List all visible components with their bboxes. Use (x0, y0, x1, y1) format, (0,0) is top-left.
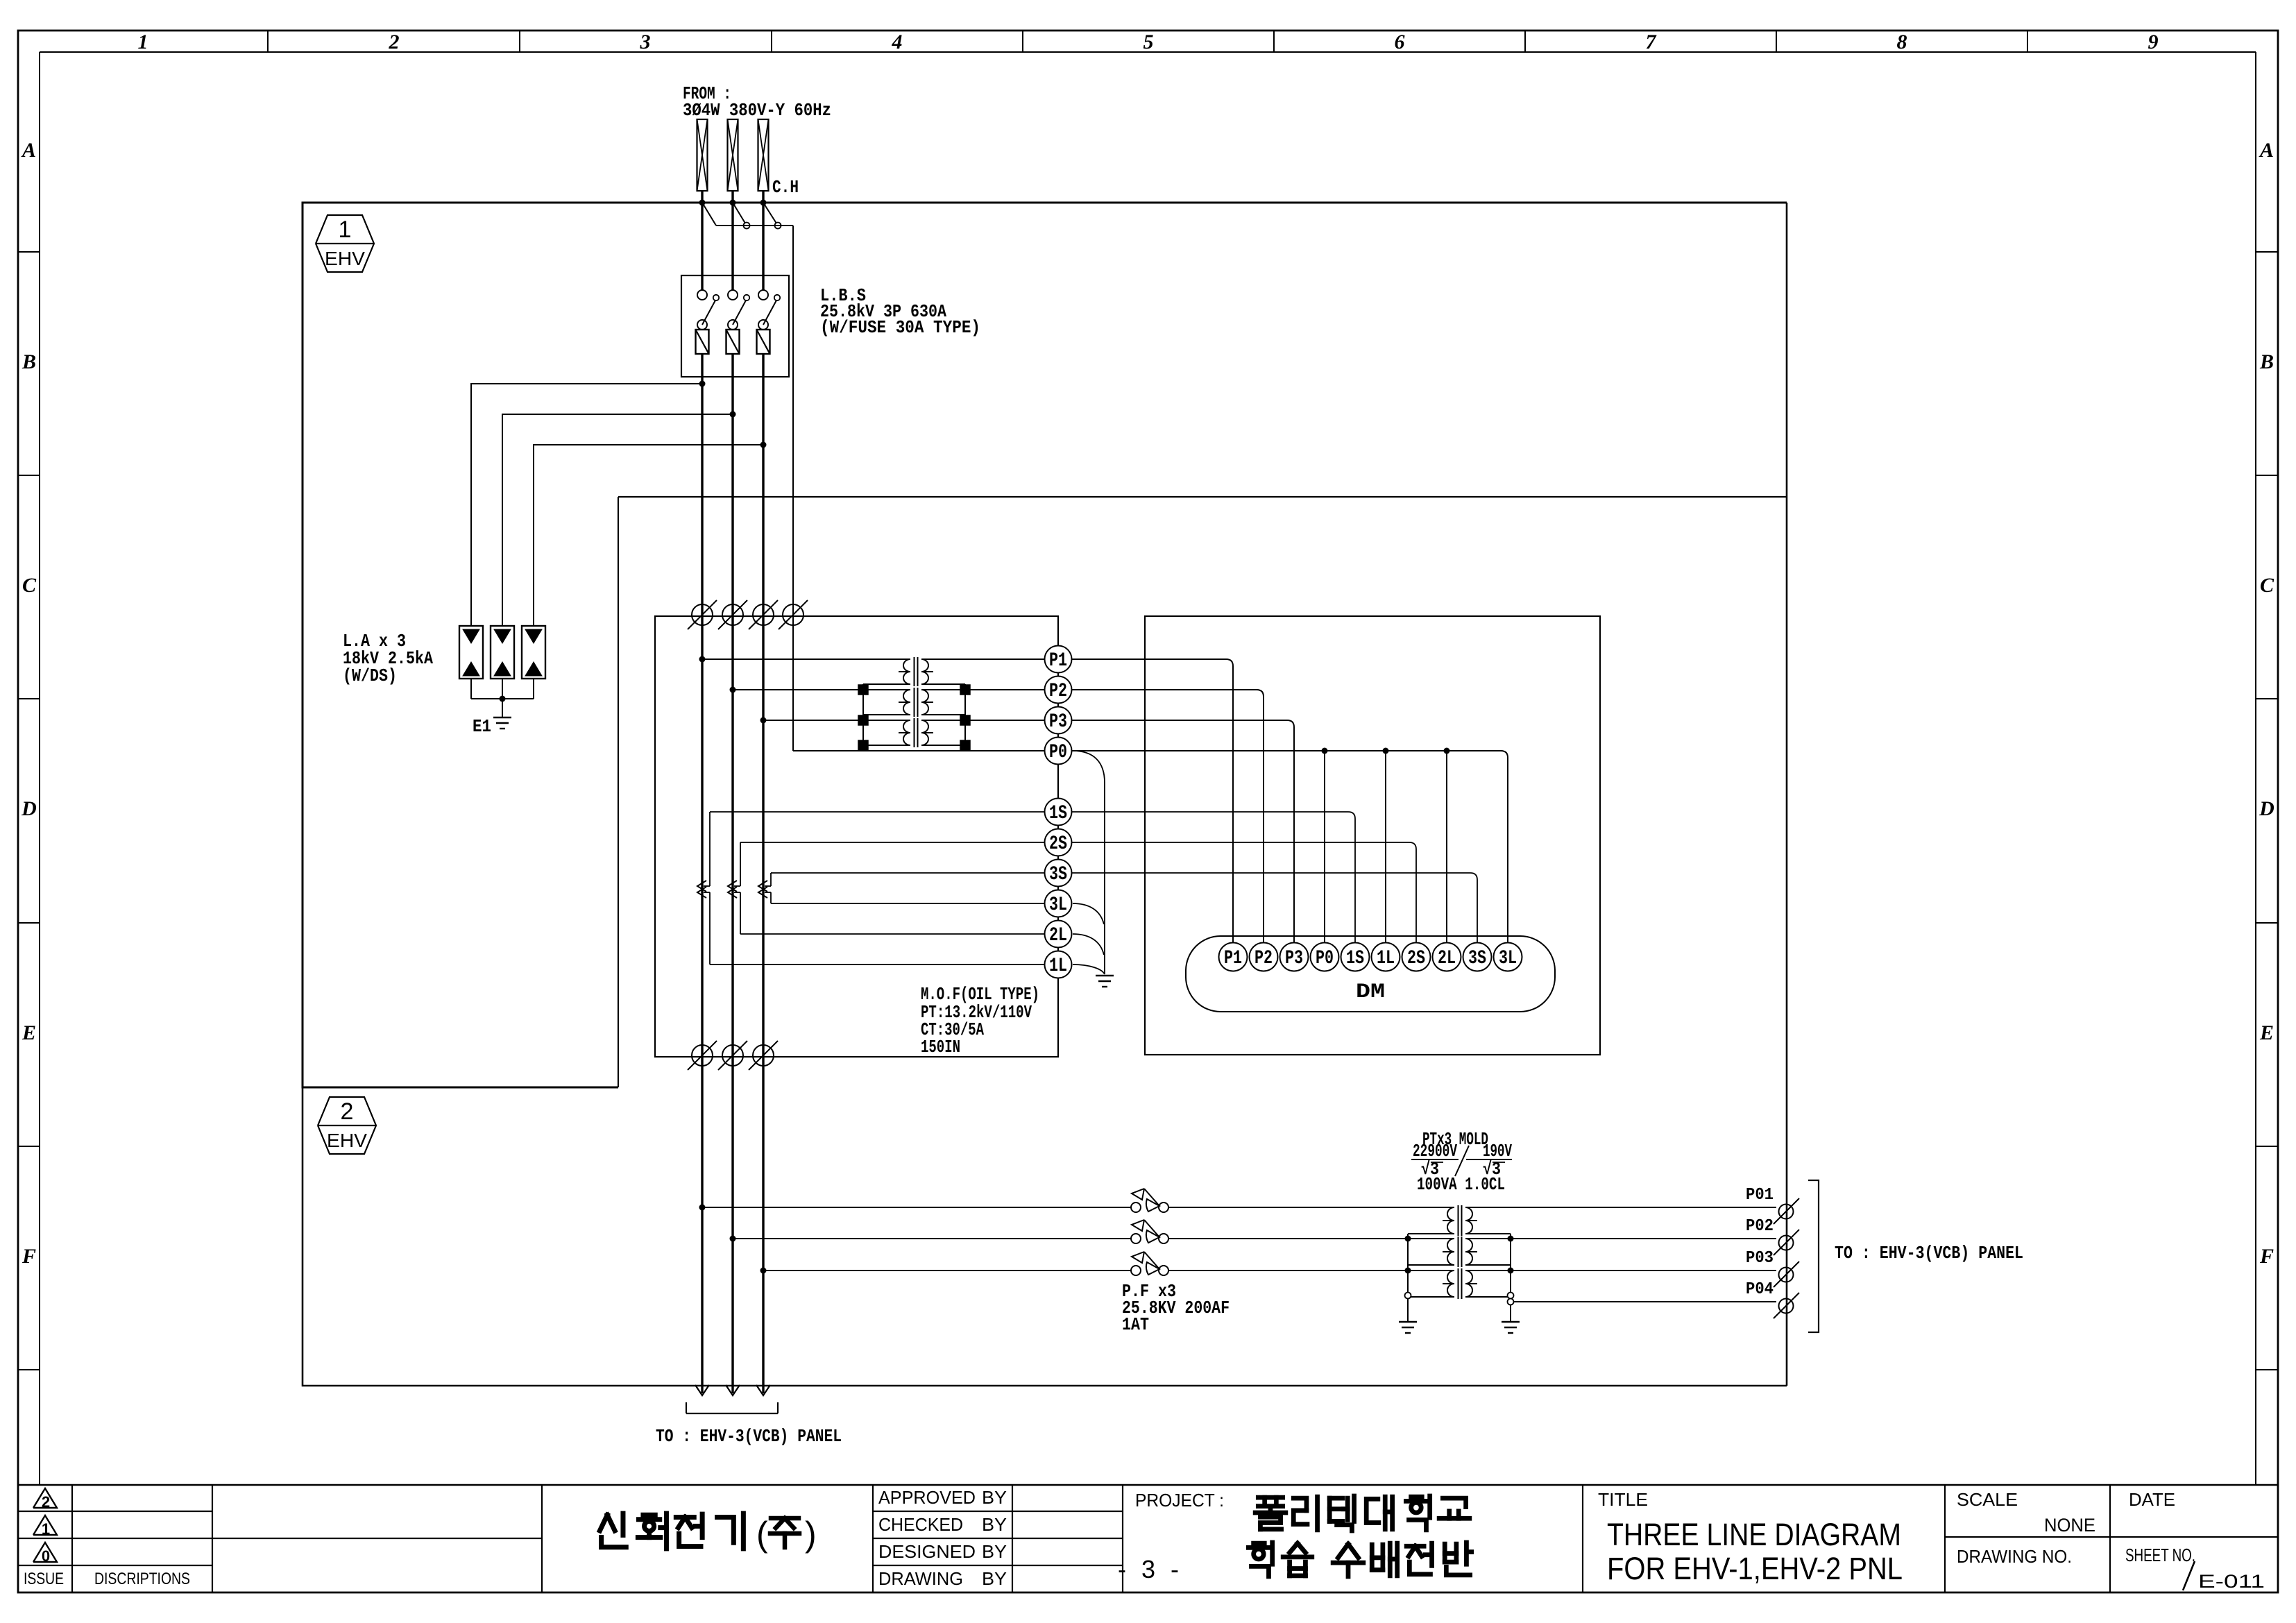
terminal DM 3S (1463, 943, 1492, 971)
border inner frame left (39, 52, 40, 1485)
svg-text:6: 6 (1395, 31, 1405, 53)
wire LA branch C (534, 445, 763, 625)
ground PT primary (1399, 1321, 1417, 1323)
svg-text:TO : EHV-3(VCB) PANEL: TO : EHV-3(VCB) PANEL (656, 1426, 842, 1447)
title block top edge (18, 1484, 2278, 1486)
node PT tap P2 (730, 687, 736, 693)
CT 3 secondary stubs (765, 885, 771, 887)
column tick marks (268, 31, 2027, 52)
wire PT right ground rail (1510, 1234, 1511, 1322)
wire PT1 primary bottom lead (863, 683, 910, 685)
bracket bottom outgoing (686, 1402, 687, 1413)
title block horizontal dividers (18, 1511, 2278, 1565)
svg-text:0: 0 (42, 1547, 50, 1565)
wire P3 (763, 720, 910, 721)
svg-text:4: 4 (892, 31, 903, 53)
svg-text:BY: BY (982, 1514, 1007, 1535)
blade contact circle B (744, 223, 750, 229)
svg-text:P2: P2 (1255, 948, 1273, 969)
wire PT1 secondary bottom (1465, 1233, 1511, 1234)
svg-text:BY: BY (982, 1568, 1007, 1589)
blade phase C (763, 203, 778, 226)
ground PT secondary (1502, 1321, 1520, 1323)
cable head CH1 (697, 119, 708, 191)
revision triangle 1 (33, 1515, 57, 1538)
svg-text:DRAWING: DRAWING (878, 1568, 963, 1589)
wire 1L (710, 964, 1058, 965)
wire PT3 secondary bottom lead (921, 745, 965, 746)
arrester LA3 (522, 626, 545, 679)
wire phase 3 to fuse (763, 1270, 1131, 1271)
wire 1L drop (709, 892, 711, 965)
svg-text:P1: P1 (1049, 650, 1067, 672)
wire PT1 secondary bottom lead (921, 683, 965, 685)
bushing P04 (1779, 1299, 1794, 1314)
bushing P03 (1779, 1268, 1794, 1282)
svg-text:): ) (805, 1515, 817, 1554)
svg-text:BY: BY (982, 1541, 1007, 1562)
wire fuse PF3 to PT (1168, 1270, 1454, 1271)
wire MOF left link rail (862, 684, 864, 745)
LBS pole A blade (702, 299, 716, 325)
wire 2L (740, 933, 1058, 935)
wire P1 to DM (1058, 659, 1233, 943)
meter DM body (1186, 936, 1555, 1012)
bracket outgoing (1808, 1180, 1819, 1332)
arrester LA1 (459, 626, 483, 679)
column numbers 1-9 (138, 31, 2159, 53)
transformer MOF PT3 (914, 718, 915, 747)
wire PT2 primary bottom lead (863, 714, 910, 715)
terminal DM 2S (1402, 943, 1431, 971)
wire 3L pigtail (1073, 903, 1104, 924)
svg-text:1L: 1L (1377, 948, 1395, 969)
svg-text:3Ø4W 380V-Y 60Hz: 3Ø4W 380V-Y 60Hz (683, 100, 831, 121)
svg-text:F: F (22, 1245, 36, 1268)
svg-text:C: C (22, 574, 37, 597)
svg-text:P2: P2 (1049, 681, 1067, 702)
svg-text:TO : EHV-3(VCB) PANEL: TO : EHV-3(VCB) PANEL (1835, 1243, 2023, 1264)
node PT right rail P02 (1508, 1236, 1514, 1242)
fuse F1 30A (696, 330, 709, 354)
terminal MOF P2 (1045, 677, 1072, 704)
svg-text:F: F (2259, 1245, 2274, 1268)
panel shared edge horizontal (618, 496, 1787, 498)
svg-text:1L: 1L (1049, 955, 1067, 977)
wire P2 to DM (1058, 690, 1264, 943)
svg-text:EHV: EHV (325, 248, 365, 269)
svg-text:PROJECT :: PROJECT : (1135, 1490, 1224, 1511)
wire phase 1 to fuse (702, 1207, 1131, 1208)
LBS pole B hinge contact (728, 320, 738, 330)
svg-text:BY: BY (982, 1487, 1007, 1508)
operating rod wire (716, 225, 793, 226)
svg-text:EHV: EHV (327, 1130, 367, 1151)
arrester LA2 (491, 626, 514, 679)
svg-text:FOR EHV-1,EHV-2 PNL: FOR EHV-1,EHV-2 PNL (1607, 1551, 1903, 1586)
node arrester bus (500, 696, 506, 702)
svg-text:B: B (2259, 350, 2274, 373)
svg-text:2L: 2L (1049, 925, 1067, 946)
svg-text:2S: 2S (1407, 948, 1425, 969)
node PT right rail P03 (1508, 1268, 1514, 1274)
terminal P04 open (1508, 1299, 1514, 1305)
wire PT3 secondary bottom (1465, 1296, 1511, 1298)
svg-text:(W/FUSE 30A TYPE): (W/FUSE 30A TYPE) (820, 317, 980, 338)
wire 3L drop (770, 892, 772, 903)
node PT tap P3 (760, 717, 767, 724)
transformer PTx3 PT2 (1458, 1237, 1459, 1267)
svg-text:1AT: 1AT (1122, 1314, 1149, 1335)
svg-text:P01: P01 (1746, 1186, 1774, 1205)
LBS pole C fixed contact (758, 290, 768, 300)
svg-text:- 3 -: - 3 - (1118, 1555, 1183, 1583)
svg-text:APPROVED: APPROVED (878, 1487, 976, 1508)
terminal DM 3L (1494, 943, 1522, 971)
arrow to EHV-3 A (695, 1385, 709, 1395)
CT 2 chevrons (728, 881, 737, 892)
svg-text:100VA 1.0CL: 100VA 1.0CL (1417, 1174, 1505, 1195)
wire 2L pigtail (1073, 934, 1104, 955)
panel shared edge vertical (618, 497, 619, 1087)
wire feeder B lower (731, 1239, 733, 1393)
node LA tap phase A (699, 381, 706, 387)
CT 3 chevrons (758, 881, 767, 892)
wire PT left ground rail (1407, 1234, 1409, 1322)
wire feeder C lower (762, 1271, 764, 1393)
wire P0 to DM (1058, 751, 1508, 943)
wire PT1 primary bottom (1408, 1233, 1454, 1234)
bushing P02 (1779, 1236, 1794, 1250)
node LA tap phase B (730, 411, 736, 418)
fuse PF2 (1131, 1234, 1141, 1243)
bushing P01 (1779, 1205, 1794, 1219)
border inner frame top (40, 51, 2256, 53)
node PF tap 1 (699, 1205, 706, 1211)
svg-text:2S: 2S (1049, 833, 1067, 855)
svg-text:P0: P0 (1316, 948, 1334, 969)
wire P2 (733, 689, 910, 690)
svg-text:P04: P04 (1746, 1280, 1774, 1299)
node P0-P0 drop (1322, 748, 1328, 754)
bushing MOF top C (753, 604, 774, 625)
wire 1S to DM (710, 812, 1355, 943)
svg-text:2: 2 (389, 31, 400, 53)
terminal DM 2L (1433, 943, 1461, 971)
fuse PF1 (1131, 1203, 1141, 1212)
blade phase A (702, 203, 716, 226)
terminal DM 1S (1341, 943, 1370, 971)
terminal MOF P1 (1045, 646, 1072, 673)
wire P04 (1514, 1301, 1776, 1302)
meter M.O.F enclosure (655, 616, 1058, 1057)
wire 1L pigtail (1073, 965, 1105, 974)
terminal MOF 2S (1045, 829, 1072, 856)
bushing MOF top B (722, 604, 743, 625)
CT 1 secondary stubs (704, 885, 710, 887)
wire rod down to MOF P0 bushing (792, 226, 794, 751)
svg-text:D: D (2259, 797, 2274, 820)
svg-text:DISCRIPTIONS: DISCRIPTIONS (94, 1570, 190, 1588)
fraction slash (1455, 1146, 1469, 1176)
panel EHV-2 boundary (303, 1087, 1787, 1386)
revision triangle 0 (33, 1543, 57, 1565)
terminal DM P3 (1280, 943, 1309, 971)
fuse F3 30A (757, 330, 770, 354)
revision triangle 2 (33, 1488, 57, 1511)
svg-text:1: 1 (138, 31, 148, 53)
node phase C on bus (760, 200, 767, 206)
terminal MOF 3S (1045, 860, 1072, 887)
wire P3 to DM (1058, 720, 1294, 943)
node P0-1L drop (1383, 748, 1389, 754)
svg-text:E1: E1 (473, 716, 491, 737)
terminal MOF 1L (1045, 951, 1072, 978)
LBS pole C hinge contact (758, 320, 768, 330)
ground MOF secondary (1096, 975, 1114, 976)
wire feeder A below fuse (701, 354, 703, 1207)
node phase B on bus (730, 200, 736, 206)
CT 2 secondary stubs (734, 885, 740, 887)
svg-text:CHECKED: CHECKED (878, 1514, 963, 1535)
wire fuse PF2 to PT (1168, 1238, 1454, 1239)
node LA tap phase C (760, 442, 767, 448)
svg-text:P3: P3 (1049, 711, 1067, 733)
wire feeder B into LBS (731, 203, 733, 290)
svg-text:1S: 1S (1049, 803, 1067, 824)
wire P0 pigtail (1073, 751, 1105, 974)
LBS pole C blade (763, 299, 777, 325)
transformer PTx3 PT1 (1458, 1205, 1459, 1236)
svg-text:DM: DM (1356, 980, 1385, 1004)
svg-text:TITLE: TITLE (1598, 1489, 1648, 1510)
wire P02 (1465, 1238, 1776, 1239)
wire P01 (1465, 1207, 1776, 1208)
cable head CH3 (758, 119, 769, 191)
terminal MOF 2L (1045, 921, 1072, 948)
bushing MOF top N (783, 604, 803, 625)
bushing MOF bottom C (753, 1045, 774, 1066)
wire feeder A into LBS (701, 203, 703, 290)
wire PT2 secondary bottom (1465, 1264, 1511, 1266)
transformer PTx3 PT3 (1458, 1268, 1459, 1299)
terminal MOF 1S (1045, 799, 1072, 826)
LBS pole A fixed contact (697, 290, 707, 300)
svg-text:DESIGNED: DESIGNED (878, 1541, 976, 1562)
svg-text:3: 3 (640, 31, 651, 53)
svg-text:P0: P0 (1049, 742, 1067, 763)
svg-text:2L: 2L (1438, 948, 1456, 969)
panel tag hexagon 1/EHV (316, 215, 374, 272)
link terminal left 994 (858, 685, 868, 695)
svg-text:B: B (22, 350, 36, 373)
row letters A-F (21, 139, 2274, 1268)
fuse F2 30A (726, 330, 740, 354)
fuse PF3 (1131, 1266, 1141, 1275)
svg-text:150IN: 150IN (921, 1037, 960, 1057)
svg-text:1: 1 (339, 216, 352, 243)
wire P1 (702, 658, 910, 660)
CT 1 chevrons (697, 881, 706, 892)
bushing MOF bottom A (692, 1045, 713, 1066)
wire PT3 primary bottom (1408, 1296, 1454, 1298)
wire 3L (771, 903, 1058, 904)
wire feeder C below fuse (762, 354, 764, 1271)
svg-text:7: 7 (1646, 31, 1657, 53)
bushing MOF top A (692, 604, 713, 625)
svg-text:1S: 1S (1346, 948, 1364, 969)
svg-text:C: C (2260, 574, 2274, 597)
link terminal right 994 (960, 685, 970, 695)
svg-text:A: A (21, 139, 36, 162)
svg-text:P3: P3 (1285, 948, 1303, 969)
terminal MOF P3 (1045, 707, 1072, 734)
link terminal right 1038 (960, 715, 970, 725)
LBS pole A hinge contact (697, 320, 707, 330)
wire PT2 primary bottom (1408, 1264, 1454, 1266)
svg-text:3L: 3L (1049, 894, 1067, 916)
node phase A on bus (699, 200, 706, 206)
svg-text:(W/DS): (W/DS) (343, 665, 397, 686)
wire 2S riser (740, 842, 741, 886)
link terminal left 1038 (858, 715, 868, 725)
transformer MOF PT1 (914, 657, 915, 686)
wire 2S to DM (740, 842, 1416, 943)
cable head CH2 (728, 119, 738, 191)
node PT left rail P03 (1405, 1268, 1411, 1274)
svg-text:2: 2 (42, 1493, 50, 1511)
svg-text:E-011: E-011 (2198, 1571, 2265, 1592)
wire MOF terminal chain (1057, 659, 1059, 965)
svg-text:A: A (2259, 139, 2274, 162)
svg-text:8: 8 (1897, 31, 1907, 53)
wire P0 (793, 750, 1058, 751)
node PT left rail P02 (1405, 1236, 1411, 1242)
transformer MOF PT2 (914, 688, 915, 717)
wire feeder C into LBS (762, 203, 764, 290)
node PF tap 2 (730, 1236, 736, 1242)
wire PT3 primary bottom lead (863, 745, 910, 746)
border inner frame right (2255, 52, 2256, 1485)
wire 2L drop (740, 892, 741, 934)
wire 3S to DM (771, 873, 1477, 943)
svg-text:3S: 3S (1049, 864, 1067, 885)
panel tag hexagon 2/EHV (318, 1097, 376, 1154)
svg-text:5: 5 (1143, 31, 1154, 53)
svg-text:D: D (21, 797, 37, 820)
panel right edge (1786, 203, 1788, 1386)
node PF tap 3 (760, 1268, 767, 1274)
terminal MOF 3L (1045, 890, 1072, 917)
arrow to EHV-3 B (726, 1385, 740, 1395)
link terminal left 1074 (858, 740, 868, 750)
svg-text:2: 2 (341, 1098, 354, 1125)
terminal MOF P0 (1045, 738, 1072, 765)
project name line2 학습 수배전반 (1248, 1543, 1272, 1577)
wire MOF right link rail (964, 684, 966, 745)
node P0-2L drop (1444, 748, 1450, 754)
blade contact circle C (775, 223, 781, 229)
terminal DM P1 (1219, 943, 1248, 971)
svg-text:3S: 3S (1468, 948, 1486, 969)
wire LA branch B (502, 414, 733, 625)
terminal DM P0 (1311, 943, 1339, 971)
terminal PT right open (1508, 1293, 1514, 1299)
wire 3S riser (770, 873, 772, 886)
wire LA branch A (471, 384, 702, 625)
wire PT2 secondary bottom lead (921, 714, 965, 715)
arrow to EHV-3 C (756, 1385, 770, 1395)
link terminal right 1074 (960, 740, 970, 750)
LBS pole B blade (733, 299, 747, 325)
company name 신화전기(주) (599, 1513, 626, 1547)
svg-text:NONE: NONE (2044, 1515, 2095, 1536)
svg-text:E: E (22, 1021, 36, 1044)
ground E1 (493, 717, 511, 718)
blade phase B (733, 203, 747, 226)
bushing MOF bottom B (722, 1045, 743, 1066)
row tick marks (18, 252, 2278, 1370)
wire arrester common bus (470, 679, 472, 699)
wire feeder B below fuse (731, 354, 733, 1239)
svg-text:1: 1 (42, 1520, 50, 1538)
terminal PT left open (1405, 1293, 1411, 1299)
svg-text:(: ( (756, 1515, 768, 1554)
svg-text:THREE LINE DIAGRAM: THREE LINE DIAGRAM (1607, 1517, 1901, 1552)
svg-text:DRAWING NO.: DRAWING NO. (1957, 1546, 2072, 1567)
meter DM enclosure (1145, 616, 1600, 1055)
svg-text:P02: P02 (1746, 1217, 1774, 1236)
svg-text:ISSUE: ISSUE (24, 1570, 64, 1588)
svg-text:3L: 3L (1499, 948, 1517, 969)
LBS pole B fixed contact (728, 290, 738, 300)
switch L.B.S enclosure (681, 275, 789, 377)
wire 1S riser (709, 812, 711, 886)
svg-text:C.H: C.H (772, 177, 799, 198)
sheet number /E-011 (2183, 1561, 2195, 1590)
title block vertical dividers (72, 1485, 2110, 1592)
svg-text:P03: P03 (1746, 1249, 1774, 1268)
svg-text:9: 9 (2148, 31, 2159, 53)
wire fuse PF1 to PT (1168, 1207, 1454, 1208)
terminal DM 1L (1372, 943, 1400, 971)
panel EHV-1 boundary (303, 203, 1787, 1087)
wire feeder A lower (701, 1207, 703, 1393)
svg-text:SCALE: SCALE (1957, 1489, 2018, 1510)
svg-text:DATE: DATE (2129, 1489, 2175, 1510)
terminal DM P2 (1250, 943, 1278, 971)
svg-text:E: E (2259, 1021, 2274, 1044)
wire phase 2 to fuse (733, 1238, 1131, 1239)
wire P03 (1465, 1270, 1776, 1271)
project name line1 폴리텍대학교 (1255, 1497, 1286, 1529)
svg-text:P1: P1 (1224, 948, 1242, 969)
svg-text:SHEET NO.: SHEET NO. (2125, 1545, 2195, 1565)
node PT tap P1 (699, 656, 706, 663)
